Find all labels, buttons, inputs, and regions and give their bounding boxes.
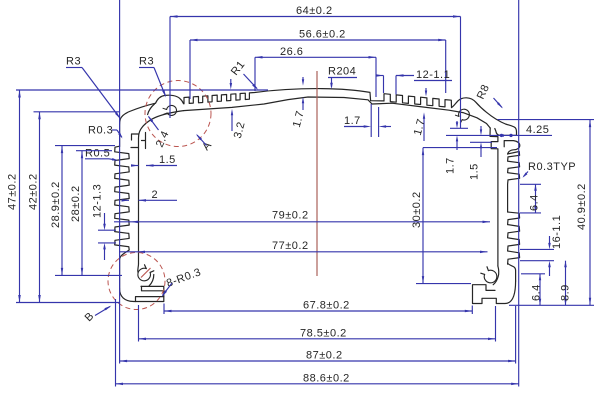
svg-text:28±0.2: 28±0.2 bbox=[70, 185, 82, 222]
dim 26.6 line bbox=[255, 56, 376, 59]
label R3 right bbox=[139, 56, 166, 98]
label B bbox=[83, 306, 112, 325]
label R204 bbox=[328, 66, 357, 90]
svg-text:67.8±0.2: 67.8±0.2 bbox=[303, 300, 350, 312]
svg-text:16-1.1: 16-1.1 bbox=[551, 215, 563, 249]
label R1 bbox=[229, 59, 258, 90]
right wall fins group1 bbox=[508, 152, 520, 213]
screw boss hole B(left) bbox=[138, 268, 151, 281]
right wall top rib bbox=[504, 141, 520, 154]
screw channel hole B bbox=[459, 109, 470, 120]
dim 26.6 ext lines bbox=[255, 57, 376, 97]
svg-text:12-1.1: 12-1.1 bbox=[416, 69, 450, 81]
svg-text:1.7: 1.7 bbox=[445, 157, 457, 174]
label A bbox=[196, 134, 214, 153]
svg-text:4.25: 4.25 bbox=[526, 124, 549, 136]
lid underside line bbox=[184, 97, 491, 128]
dim 1.5 left bbox=[131, 154, 177, 167]
dim 1.7 step ext lines bbox=[371, 104, 378, 137]
tooth height arrow left bbox=[230, 79, 233, 90]
left wall inner step line bbox=[131, 133, 146, 149]
left wall outer top corner bbox=[120, 103, 156, 146]
left wall fins bbox=[115, 146, 130, 289]
svg-text:47±0.2: 47±0.2 bbox=[7, 173, 19, 210]
screw channel hole A slot lips bbox=[163, 108, 167, 114]
detail circle B (dashed) bbox=[108, 253, 165, 310]
svg-text:88.6±0.2: 88.6±0.2 bbox=[303, 372, 350, 384]
right foot outer corner arc bbox=[473, 281, 516, 304]
lid top outer contour bbox=[156, 89, 517, 136]
dim 56.6±0.2 line bbox=[190, 39, 446, 41]
label R0.5 bbox=[85, 148, 118, 161]
dim 28.9±0.2 bbox=[50, 146, 122, 276]
dim 12-1.1 text bbox=[416, 69, 450, 81]
dim 1.7 crown arrows bbox=[291, 77, 307, 129]
svg-text:78.5±0.2: 78.5±0.2 bbox=[300, 327, 347, 339]
svg-text:1.5: 1.5 bbox=[469, 163, 481, 180]
svg-text:56.6±0.2: 56.6±0.2 bbox=[299, 29, 346, 41]
dim 56.6±0.2 ext lines bbox=[190, 40, 446, 99]
svg-text:R204: R204 bbox=[328, 66, 356, 78]
detail circle A (dashed) bbox=[145, 81, 211, 147]
dim 47±0.2 bbox=[7, 90, 269, 303]
dim 28±0.2 bbox=[70, 151, 112, 276]
dim 64±0.2 line bbox=[170, 15, 461, 18]
label 2.4 bbox=[148, 116, 172, 150]
dim 4.25 bbox=[498, 124, 553, 137]
left wall inner edge bbox=[138, 138, 140, 264]
svg-text:R3: R3 bbox=[66, 56, 81, 68]
svg-text:R0.3TYP: R0.3TYP bbox=[528, 161, 576, 173]
label 8-R0.3 bbox=[162, 266, 203, 297]
dim 1.7 underside right bbox=[412, 112, 428, 141]
svg-text:79±0.2: 79±0.2 bbox=[272, 210, 309, 222]
red center line bbox=[316, 71, 318, 276]
dim 6.4 upper bbox=[520, 184, 541, 213]
lid-left junction inner curve bbox=[139, 111, 184, 138]
dim 16-1.1 bbox=[520, 215, 563, 276]
dim 1.7 step bbox=[344, 115, 391, 128]
screw boss hole B(right) bbox=[484, 270, 497, 283]
svg-text:R0.5: R0.5 bbox=[85, 148, 110, 160]
dim 88.6±0.2 bbox=[116, 0, 519, 387]
label R3 left bbox=[66, 56, 121, 120]
svg-text:64±0.2: 64±0.2 bbox=[296, 5, 333, 17]
dim 1.5 right bbox=[469, 126, 493, 180]
dim 8.9 bbox=[560, 261, 572, 306]
svg-text:R3: R3 bbox=[139, 56, 154, 68]
dim 67.8±0.2 bbox=[164, 300, 472, 315]
dim 42±0.2 bbox=[28, 112, 120, 303]
tooth height arrow right bbox=[425, 88, 427, 97]
svg-text:40.9±0.2: 40.9±0.2 bbox=[576, 183, 588, 230]
svg-text:2: 2 bbox=[152, 189, 159, 201]
lid right tip hook / groove bbox=[490, 128, 501, 266]
svg-text:R0.3: R0.3 bbox=[88, 125, 113, 137]
svg-text:6.4: 6.4 bbox=[531, 284, 543, 301]
screw channel hole B slot lips bbox=[455, 115, 462, 123]
dim 12-1.1 arrows bbox=[376, 74, 452, 94]
dim 6.4 lower bbox=[521, 274, 545, 306]
svg-text:87±0.2: 87±0.2 bbox=[306, 350, 343, 362]
label R0.3TYP bbox=[523, 161, 577, 178]
dim 26.6 text bbox=[280, 46, 303, 58]
dim 79±0.2 bbox=[114, 210, 490, 224]
dim 4.25 ref line ext bbox=[446, 134, 498, 136]
svg-text:12-1.3: 12-1.3 bbox=[92, 184, 104, 218]
svg-text:30±0.2: 30±0.2 bbox=[411, 191, 423, 228]
dim 77±0.2 bbox=[119, 240, 488, 253]
dim 12-1.3 bbox=[92, 184, 117, 260]
svg-text:26.6: 26.6 bbox=[280, 46, 303, 58]
svg-text:6.4: 6.4 bbox=[529, 194, 541, 211]
dim 87±0.2 bbox=[120, 0, 516, 364]
right wall fins group2 bbox=[508, 212, 520, 281]
label R8 bbox=[475, 83, 503, 109]
dim 40.9±0.2 bbox=[498, 120, 595, 306]
dim 56.6±0.2 text bbox=[299, 29, 346, 41]
dim 64±0.2 text bbox=[296, 5, 333, 17]
left foot outer corner arc bbox=[120, 286, 164, 301]
svg-text:8.9: 8.9 bbox=[560, 284, 572, 301]
dim 3.2 bbox=[231, 109, 248, 140]
label R0.3 left bbox=[88, 125, 123, 139]
dim 30±0.2 bbox=[411, 148, 497, 284]
svg-text:1.5: 1.5 bbox=[159, 154, 176, 166]
dim 78.5±0.2 bbox=[139, 305, 496, 342]
svg-text:77±0.2: 77±0.2 bbox=[272, 240, 309, 252]
screw boss B outer lips bbox=[138, 264, 154, 286]
dim 64±0.2 ext lines bbox=[170, 17, 461, 129]
svg-text:1.7: 1.7 bbox=[344, 115, 361, 127]
screw boss right lips bbox=[481, 266, 499, 285]
left foot slot upper bbox=[142, 286, 164, 290]
svg-text:28.9±0.2: 28.9±0.2 bbox=[50, 181, 62, 228]
red slash in left boss bbox=[141, 268, 151, 278]
dim 2 left bbox=[122, 189, 178, 202]
left foot slot lower bbox=[136, 297, 164, 302]
dim 1.7 right bbox=[445, 121, 469, 174]
lid-wall seam bbox=[148, 104, 155, 115]
screw channel hole A bbox=[167, 105, 177, 115]
svg-text:42±0.2: 42±0.2 bbox=[28, 173, 40, 210]
